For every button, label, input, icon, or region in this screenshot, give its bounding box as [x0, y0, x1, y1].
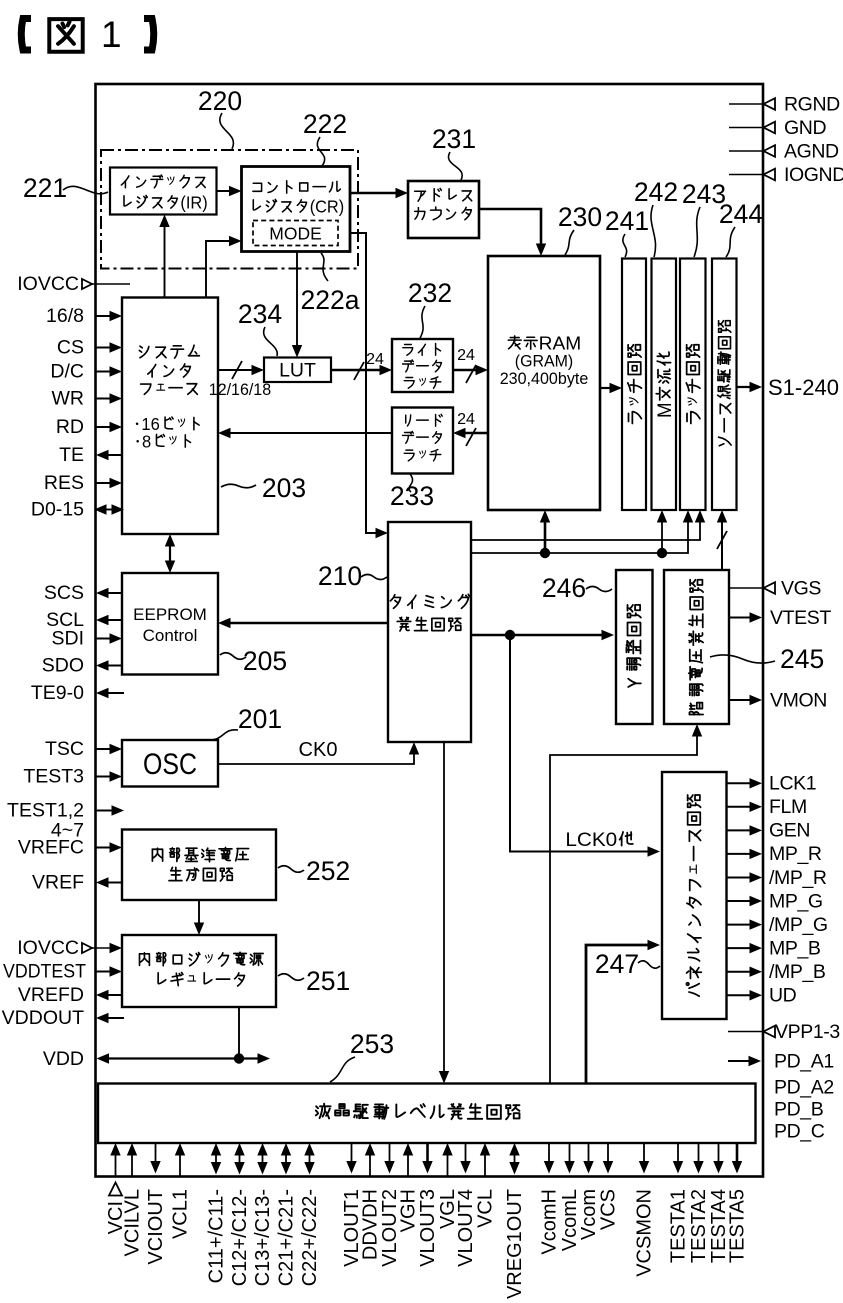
svg-text:VCIOUT: VCIOUT: [145, 1189, 167, 1265]
svg-text:241: 241: [605, 206, 649, 236]
svg-text:RD: RD: [56, 416, 84, 438]
svg-text:IOVCC: IOVCC: [17, 273, 79, 295]
svg-text:C22+/C22-: C22+/C22-: [299, 1189, 321, 1286]
svg-text:24: 24: [366, 351, 384, 368]
svg-text:C21+/C21-: C21+/C21-: [275, 1189, 297, 1286]
svg-text:(IR): (IR): [180, 192, 207, 212]
svg-text:/MP_R: /MP_R: [769, 867, 827, 889]
svg-text:EEPROM: EEPROM: [133, 605, 207, 624]
svg-text:201: 201: [238, 704, 282, 734]
svg-text:8: 8: [142, 431, 151, 451]
svg-text:VLOUT3: VLOUT3: [417, 1189, 439, 1267]
svg-text:233: 233: [390, 481, 434, 511]
svg-text:221: 221: [23, 173, 67, 203]
svg-text:210: 210: [318, 561, 362, 591]
svg-text:VREF: VREF: [32, 872, 84, 894]
svg-text:247: 247: [595, 949, 639, 979]
svg-text:252: 252: [306, 856, 350, 886]
svg-text:230,400byte: 230,400byte: [500, 369, 589, 388]
svg-text:IOVCC: IOVCC: [17, 937, 79, 959]
svg-text:IOGND: IOGND: [784, 164, 843, 186]
svg-text:VCL1: VCL1: [169, 1189, 191, 1239]
svg-text:TESTA2: TESTA2: [688, 1189, 710, 1263]
svg-text:C13+/C13-: C13+/C13-: [252, 1189, 274, 1286]
svg-text:RAM: RAM: [539, 334, 582, 354]
svg-text:1: 1: [101, 14, 122, 55]
svg-text:244: 244: [719, 199, 763, 229]
svg-text:242: 242: [634, 177, 678, 207]
svg-text:24: 24: [457, 347, 475, 364]
svg-text:VREFD: VREFD: [18, 984, 84, 1006]
svg-text:12/16/18: 12/16/18: [209, 380, 271, 399]
svg-text:222: 222: [303, 109, 347, 139]
svg-text:232: 232: [408, 278, 452, 308]
svg-text:TEST3: TEST3: [23, 766, 84, 788]
svg-text:VGS: VGS: [781, 577, 821, 599]
svg-text:VMON: VMON: [770, 689, 827, 711]
svg-text:VREFC: VREFC: [18, 837, 84, 859]
svg-text:220: 220: [198, 86, 242, 116]
svg-text:253: 253: [350, 1029, 394, 1059]
svg-text:C11+/C11-: C11+/C11-: [205, 1189, 227, 1283]
svg-text:SDI: SDI: [51, 628, 84, 650]
svg-text:TE9-0: TE9-0: [31, 682, 84, 704]
svg-text:UD: UD: [769, 985, 797, 1007]
svg-text:GEN: GEN: [769, 820, 810, 842]
svg-text:TESTA1: TESTA1: [667, 1189, 689, 1263]
svg-text:Control: Control: [143, 626, 198, 645]
svg-text:OSC: OSC: [143, 748, 197, 781]
svg-text:/MP_G: /MP_G: [769, 914, 828, 936]
svg-text:LCK1: LCK1: [769, 773, 816, 795]
svg-text:SCS: SCS: [44, 582, 84, 604]
svg-text:(CR): (CR): [310, 196, 345, 216]
svg-text:PD_B: PD_B: [774, 1098, 823, 1120]
svg-text:MODE: MODE: [269, 224, 322, 244]
svg-text:VcomH: VcomH: [538, 1189, 560, 1255]
svg-text:222a: 222a: [301, 285, 360, 315]
svg-text:VDD: VDD: [43, 1048, 84, 1070]
svg-text:24: 24: [457, 411, 475, 428]
svg-text:VDDOUT: VDDOUT: [2, 1007, 84, 1029]
svg-text:RGND: RGND: [784, 93, 840, 115]
svg-text:251: 251: [306, 966, 350, 996]
svg-text:TE: TE: [59, 444, 84, 466]
svg-text:M: M: [654, 402, 676, 418]
svg-text:205: 205: [243, 646, 287, 676]
svg-text:GND: GND: [784, 117, 826, 139]
svg-text:MP_G: MP_G: [769, 890, 823, 912]
svg-text:VCILVL: VCILVL: [121, 1189, 143, 1256]
svg-text:/MP_B: /MP_B: [769, 961, 826, 983]
svg-text:WR: WR: [52, 388, 85, 410]
svg-text:MP_B: MP_B: [769, 937, 821, 959]
svg-text:245: 245: [780, 644, 824, 674]
svg-text:PD_C: PD_C: [774, 1120, 825, 1142]
svg-text:VDDTEST: VDDTEST: [3, 961, 86, 983]
svg-text:PD_A2: PD_A2: [774, 1076, 834, 1098]
svg-text:234: 234: [238, 299, 282, 329]
svg-text:MP_R: MP_R: [769, 843, 822, 865]
svg-text:VPP1-3: VPP1-3: [775, 1021, 840, 1043]
svg-text:246: 246: [542, 573, 586, 603]
svg-text:(GRAM): (GRAM): [515, 352, 573, 371]
svg-text:AGND: AGND: [784, 140, 839, 162]
svg-text:LCK0: LCK0: [565, 829, 617, 851]
svg-text:CS: CS: [57, 337, 84, 359]
svg-text:LUT: LUT: [279, 360, 316, 382]
svg-text:VCSMON: VCSMON: [633, 1189, 655, 1277]
svg-text:FLM: FLM: [769, 796, 807, 818]
svg-text:16/8: 16/8: [46, 305, 84, 327]
svg-text:VREG1OUT: VREG1OUT: [504, 1189, 526, 1299]
svg-text:230: 230: [558, 202, 602, 232]
svg-text:S1-240: S1-240: [768, 375, 839, 400]
svg-text:C12+/C12-: C12+/C12-: [229, 1189, 251, 1286]
svg-text:PD_A1: PD_A1: [774, 1050, 834, 1072]
svg-text:TSC: TSC: [45, 738, 84, 760]
svg-text:203: 203: [262, 473, 306, 503]
svg-text:VCL: VCL: [474, 1189, 496, 1228]
svg-text:RES: RES: [44, 472, 84, 494]
svg-text:D/C: D/C: [50, 361, 84, 383]
svg-text:SDO: SDO: [42, 655, 84, 677]
svg-text:VTEST: VTEST: [770, 607, 831, 629]
svg-text:VCS: VCS: [597, 1189, 619, 1230]
svg-text:231: 231: [432, 124, 476, 154]
svg-text:D0-15: D0-15: [31, 499, 84, 521]
svg-text:TESTA5: TESTA5: [726, 1189, 748, 1263]
svg-text:CK0: CK0: [299, 739, 338, 761]
